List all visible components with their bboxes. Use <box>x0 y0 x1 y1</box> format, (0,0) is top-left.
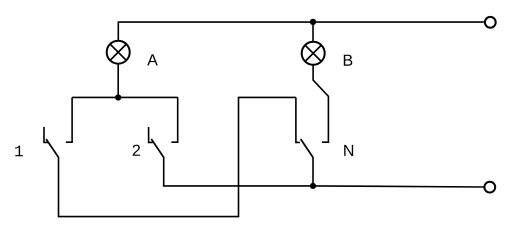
node: junction of lamp B feed on top wire <box>310 19 316 25</box>
wire: top node down to lamp B <box>312 24 314 43</box>
wire: top feed from lamp A up and across to terminal T1 <box>118 22 484 41</box>
wire: lamp A to branch junction node <box>117 63 119 97</box>
switch N (SPDT): stub contact and blade <box>296 97 313 157</box>
wire: riser to switch 1 throw contact (with hook) <box>66 97 72 142</box>
wire: switch N pole down to neutral junction <box>312 157 314 186</box>
switch 2 (SPDT): stub contact and blade <box>149 127 164 157</box>
wire: neutral run to terminal T2 <box>313 186 484 187</box>
label B <box>344 55 353 66</box>
lamp B <box>302 42 325 65</box>
terminal T2 (bottom right) <box>484 182 495 193</box>
wire: switch 2 pole down and across to neutral junction <box>164 157 313 186</box>
terminal T1 (top right) <box>485 17 496 28</box>
lamp A <box>107 41 130 64</box>
wire: riser to switch 2 throw contact (with hook) <box>171 97 177 142</box>
wire: switch 1 pole down, across bottom and up crossover to switch N contact <box>59 97 296 216</box>
label 1 <box>15 146 23 157</box>
node: lamp A branch junction <box>115 94 121 100</box>
switch 1 (SPDT): stub contact and blade <box>44 127 59 157</box>
label A <box>147 54 158 65</box>
label 2 <box>133 145 140 156</box>
wire: bus from switch 1 contact to switch 2 contact <box>72 96 178 98</box>
label N <box>344 145 353 156</box>
wire: lamp B down with jog to switch N throw contact (with hook) <box>313 65 328 143</box>
node: neutral junction at switch N pole <box>310 183 316 189</box>
